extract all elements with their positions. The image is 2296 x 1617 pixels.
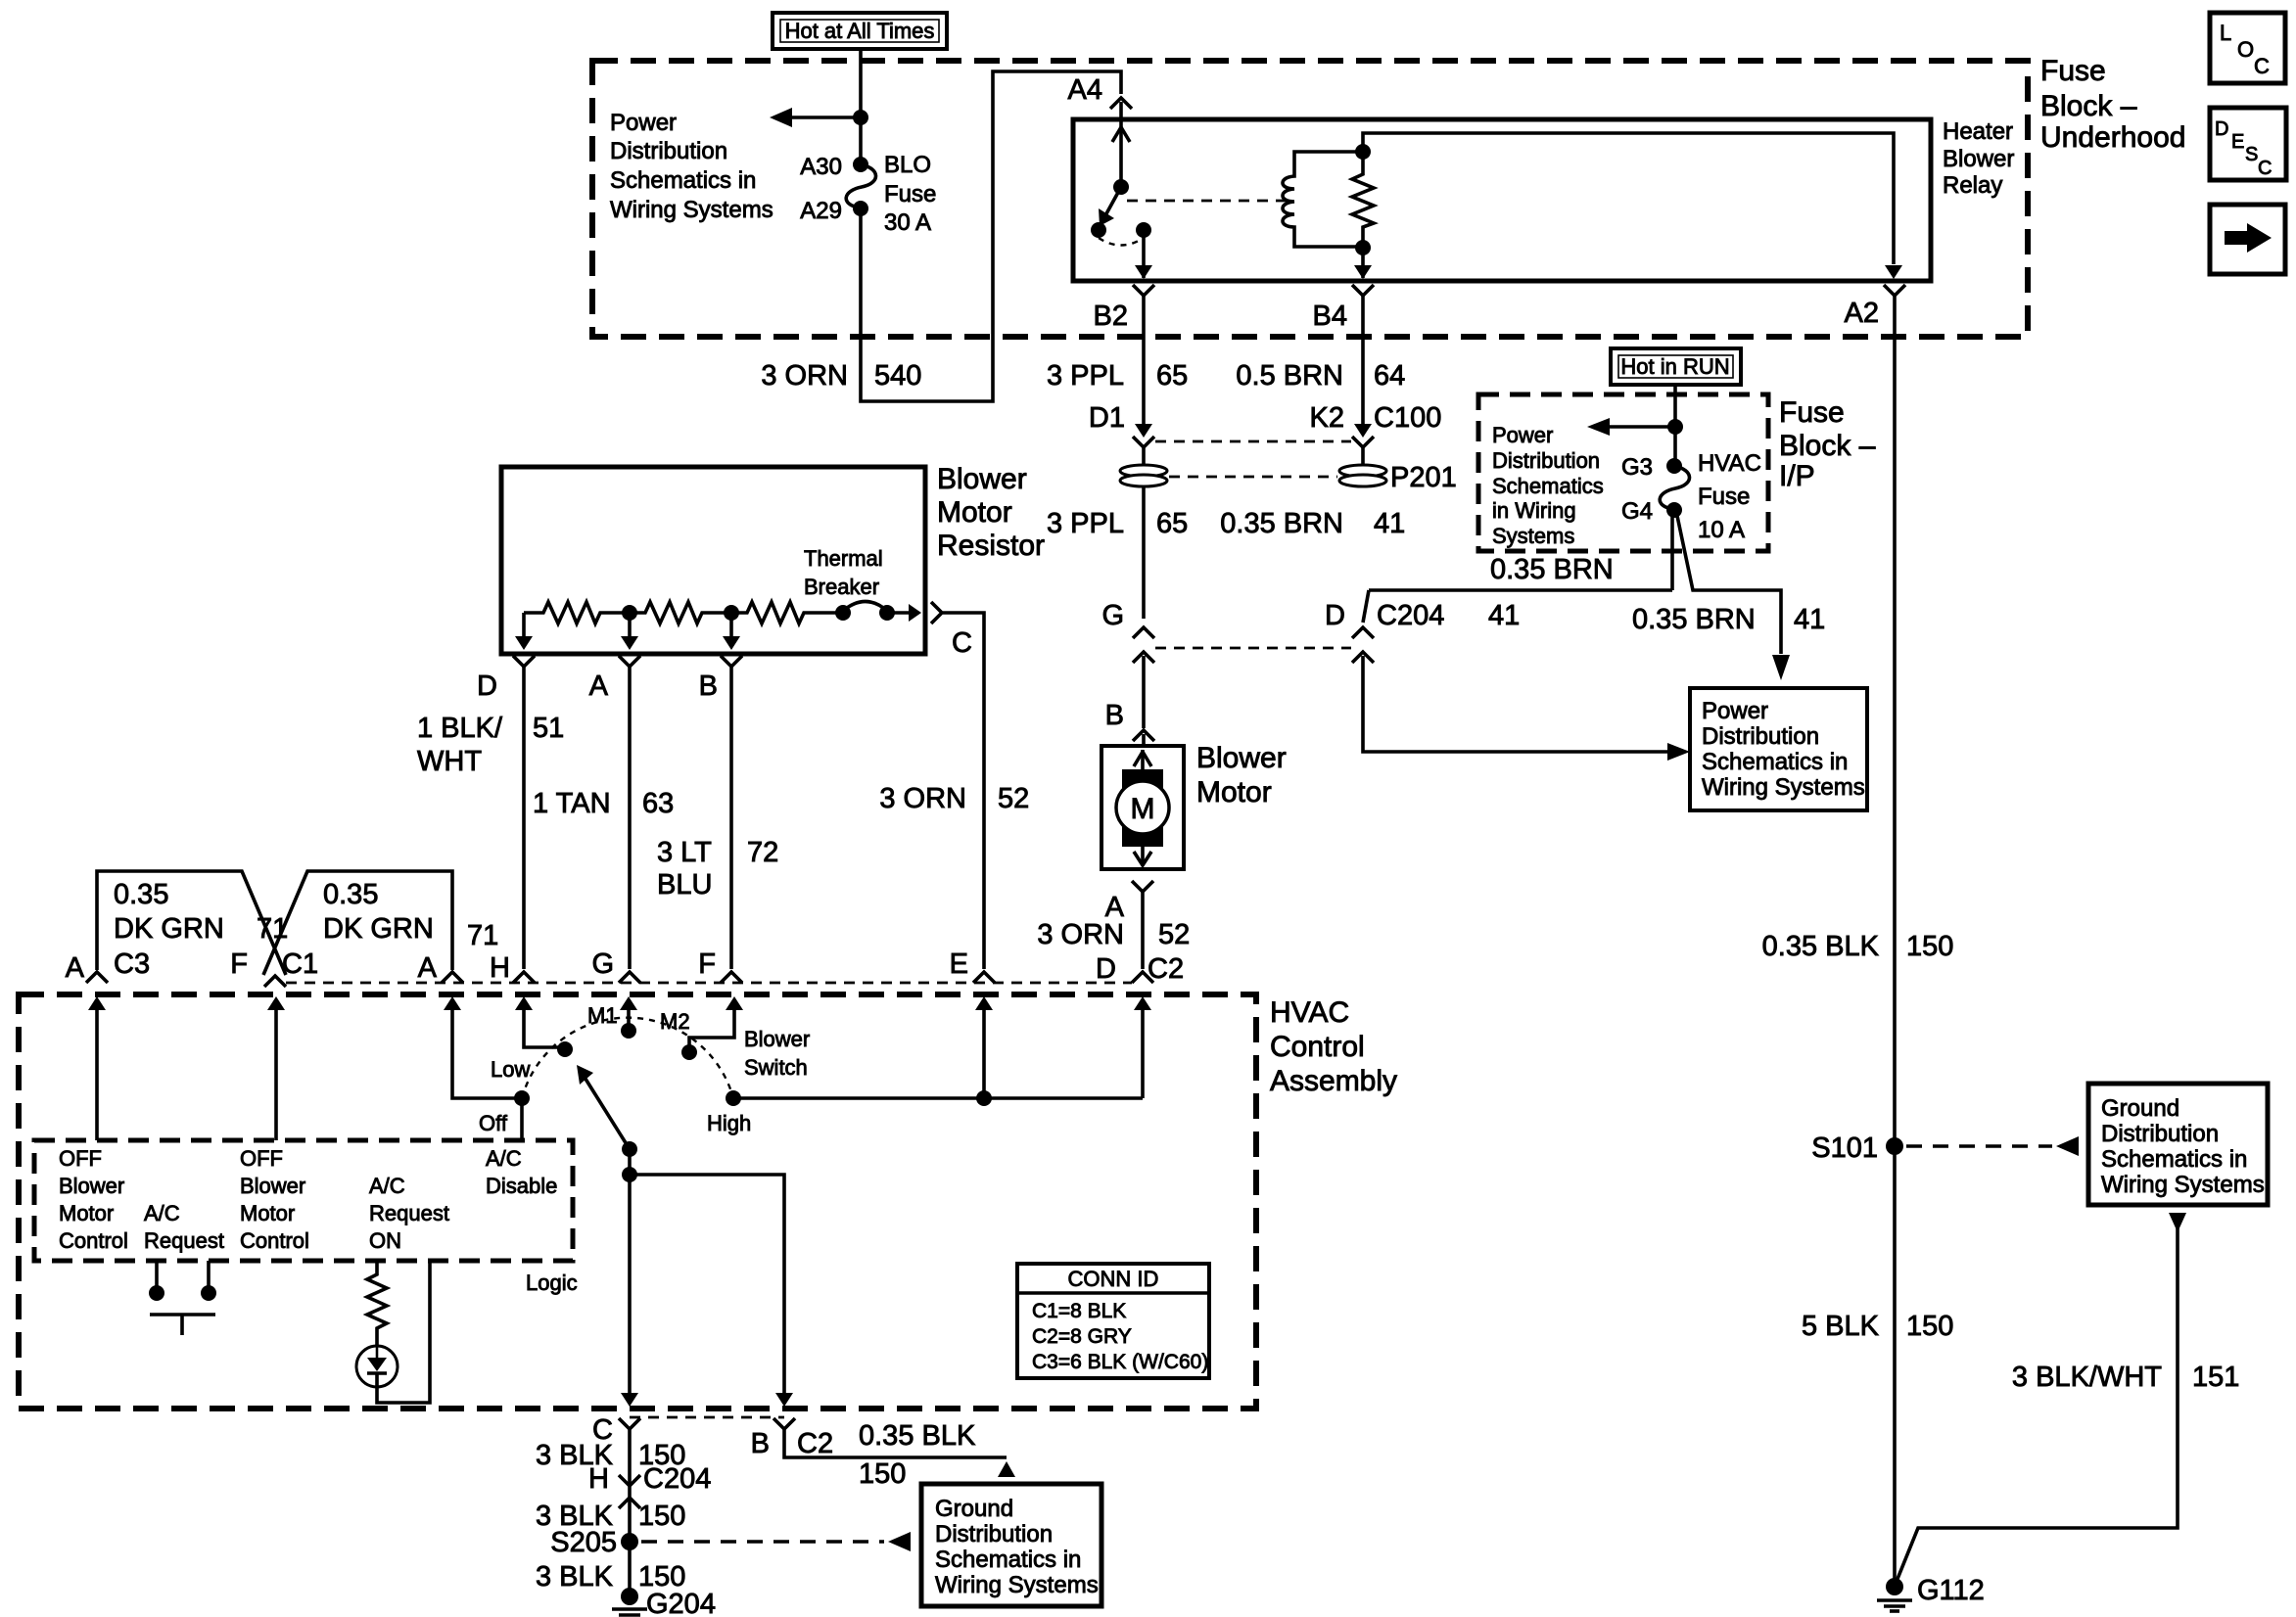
svg-text:E: E <box>950 948 968 980</box>
svg-text:65: 65 <box>1156 360 1188 392</box>
svg-text:65: 65 <box>1156 508 1188 539</box>
svg-text:3 BLK/WHT: 3 BLK/WHT <box>2012 1362 2162 1393</box>
svg-text:G204: G204 <box>646 1589 716 1617</box>
resistor element 2 <box>630 602 731 624</box>
svg-text:Motor: Motor <box>937 496 1012 529</box>
label 3 BLK 150 (below S205) <box>536 1548 685 1593</box>
blower motor pin A wire to HVAC D <box>1037 881 1190 985</box>
switch wiper arm <box>577 1065 637 1157</box>
ground distribution box (right) <box>2088 1084 2268 1205</box>
svg-text:H: H <box>490 952 510 984</box>
wire resistor C to HVAC E <box>943 613 984 969</box>
HVAC pin G to M1 contact <box>587 996 637 1039</box>
wire A2 to S101 to G112 <box>1893 296 1897 1586</box>
svg-text:CONN ID: CONN ID <box>1068 1267 1159 1291</box>
wire relay contact to B2 <box>1135 237 1152 279</box>
svg-text:G4: G4 <box>1621 498 1653 525</box>
svg-text:C1=8 BLK: C1=8 BLK <box>1032 1300 1126 1322</box>
relay contact dashed arc <box>1099 238 1144 246</box>
label 3 BLK 150 (below C204 H) <box>536 1501 685 1532</box>
label 3 BLK 150 (above C204 H) <box>536 1440 685 1471</box>
blower motor <box>1101 746 1184 869</box>
A/C request ON LED <box>356 1261 430 1403</box>
svg-text:63: 63 <box>642 788 674 819</box>
svg-text:C204: C204 <box>643 1463 711 1495</box>
ground distribution box (bottom middle) <box>921 1484 1101 1606</box>
svg-text:B: B <box>1105 700 1124 731</box>
blower switch rotary arc <box>522 1018 733 1098</box>
connector B2 chevron <box>1133 285 1154 296</box>
A/C request ON resistor <box>367 1261 387 1346</box>
splice S101 <box>1811 1132 1903 1164</box>
svg-text:G112: G112 <box>1917 1575 1985 1606</box>
label 1 TAN 63 <box>533 788 674 819</box>
svg-text:150: 150 <box>1906 1311 1953 1342</box>
svg-text:D: D <box>477 670 497 702</box>
ground G204 <box>612 1588 716 1617</box>
wire arrow to power distribution <box>770 108 868 127</box>
svg-text:ON: ON <box>369 1228 401 1253</box>
label box Hot at All Times <box>773 13 947 49</box>
HVAC pin A (C3) arrow into box <box>88 996 106 1140</box>
loc legend box <box>2210 13 2285 83</box>
dashed connector line C204 <box>1155 647 1351 650</box>
svg-text:OFF: OFF <box>59 1146 102 1171</box>
HVAC pin A to Off contact <box>444 996 516 1098</box>
label 3 BLK/WHT 151 <box>2012 1362 2239 1393</box>
svg-text:Wiring Systems: Wiring Systems <box>2101 1172 2265 1198</box>
fuse block I/P dashed box <box>1478 394 1768 551</box>
svg-text:O: O <box>2237 37 2254 62</box>
svg-text:0.5 BRN: 0.5 BRN <box>1236 360 1343 392</box>
dashed line between grommets <box>1169 476 1337 479</box>
svg-text:Schematics in: Schematics in <box>935 1547 1081 1573</box>
svg-text:WHT: WHT <box>417 746 482 777</box>
grommet P201 right <box>1339 447 1457 493</box>
thermal breaker <box>835 602 895 622</box>
wire B2 to connector C100 D1 <box>1142 296 1146 427</box>
thermal breaker label <box>804 546 883 599</box>
svg-text:71: 71 <box>257 913 288 945</box>
fuse BLO 30A <box>800 152 936 236</box>
svg-text:G: G <box>591 948 614 980</box>
svg-text:0.35 BLK: 0.35 BLK <box>1762 931 1880 962</box>
svg-text:A/C: A/C <box>369 1174 405 1198</box>
svg-text:A: A <box>418 952 438 984</box>
svg-text:71: 71 <box>467 920 498 951</box>
svg-text:Hot at All Times: Hot at All Times <box>785 19 935 43</box>
relay switch common with up arrow <box>1112 121 1130 195</box>
resistor terminal B <box>699 620 742 969</box>
svg-text:I/P: I/P <box>1779 460 1815 492</box>
svg-text:Schematics in: Schematics in <box>2101 1146 2247 1173</box>
connector C chevron (bottom) <box>592 1414 640 1535</box>
svg-text:K2: K2 <box>1310 402 1344 434</box>
blower motor label <box>1196 742 1287 808</box>
svg-text:Motor: Motor <box>59 1201 114 1225</box>
svg-text:0.35 BRN: 0.35 BRN <box>1632 604 1756 635</box>
svg-text:F: F <box>230 948 248 980</box>
svg-text:Hot in RUN: Hot in RUN <box>1620 354 1729 379</box>
svg-text:Blower: Blower <box>937 463 1027 495</box>
svg-text:Schematics in: Schematics in <box>1702 749 1848 775</box>
svg-text:H: H <box>588 1463 609 1495</box>
relay dashed link switch to coil <box>1127 200 1288 203</box>
wire G4 slant to 41 branch <box>1677 516 1790 680</box>
text A/C request <box>144 1201 224 1253</box>
svg-text:41: 41 <box>1488 600 1520 631</box>
HVAC control assembly dashed box <box>19 994 1256 1409</box>
svg-text:52: 52 <box>998 783 1029 814</box>
label 0.35 DK GRN C3 <box>66 879 289 984</box>
connector C204 pin H <box>588 1463 711 1508</box>
svg-text:Power: Power <box>1492 423 1553 447</box>
svg-text:C1: C1 <box>282 948 318 980</box>
svg-text:Control: Control <box>59 1228 128 1253</box>
svg-text:OFF: OFF <box>240 1146 283 1171</box>
svg-text:Distribution: Distribution <box>2101 1121 2219 1147</box>
wire hot in RUN into fuse block <box>1673 385 1677 462</box>
svg-text:3 ORN: 3 ORN <box>1037 919 1124 950</box>
connector C chevron (resistor) <box>931 602 942 624</box>
svg-text:D1: D1 <box>1089 402 1125 434</box>
node A junction <box>622 605 637 621</box>
HVAC control assembly title <box>1270 996 1397 1097</box>
svg-text:Blower: Blower <box>1196 742 1287 774</box>
svg-text:Motor: Motor <box>240 1201 295 1225</box>
relay contacts <box>1091 222 1106 238</box>
svg-text:HVAC: HVAC <box>1270 996 1349 1029</box>
svg-text:C2=8 GRY: C2=8 GRY <box>1032 1325 1132 1348</box>
svg-text:S101: S101 <box>1811 1132 1878 1164</box>
dashed connector line C100 <box>1155 440 1351 443</box>
svg-text:L: L <box>2220 21 2231 45</box>
dashed reference S205 to ground distribution <box>641 1532 911 1551</box>
svg-text:Motor: Motor <box>1196 776 1272 808</box>
resistor terminal D <box>477 613 535 969</box>
svg-text:Distribution: Distribution <box>1702 723 1819 750</box>
svg-text:C100: C100 <box>1374 402 1441 434</box>
svg-text:0.35 BRN: 0.35 BRN <box>1220 508 1343 539</box>
resistor terminal A <box>589 620 640 969</box>
svg-text:M2: M2 <box>660 1009 690 1034</box>
svg-text:1 BLK/: 1 BLK/ <box>417 713 503 744</box>
svg-text:Fuse: Fuse <box>1698 484 1750 510</box>
svg-text:G3: G3 <box>1621 454 1653 481</box>
svg-text:in Wiring: in Wiring <box>1492 498 1576 523</box>
HVAC pin F to M2 contact <box>660 996 743 1060</box>
svg-text:Underhood: Underhood <box>2040 121 2185 154</box>
wire coil top to relay A2 <box>1363 133 1902 279</box>
connector C204 pin G <box>1101 600 1154 728</box>
connector C204 pin D <box>1325 590 1520 663</box>
svg-text:Wiring Systems: Wiring Systems <box>935 1572 1099 1598</box>
svg-text:D: D <box>1096 953 1116 985</box>
svg-text:Fuse: Fuse <box>1779 396 1845 429</box>
svg-text:Switch: Switch <box>744 1055 808 1080</box>
relay coil suppression resistor <box>1352 144 1374 255</box>
svg-text:C: C <box>2254 54 2270 78</box>
label 0.35 BLK 150 <box>1762 931 1954 962</box>
label 1 BLK/WHT 51 <box>417 713 564 777</box>
svg-text:Blower: Blower <box>744 1027 810 1051</box>
svg-text:B4: B4 <box>1313 300 1347 332</box>
svg-text:C: C <box>2258 158 2272 179</box>
connector B4 chevron <box>1352 285 1374 296</box>
svg-text:BLO: BLO <box>884 152 931 178</box>
svg-text:DK GRN: DK GRN <box>114 913 224 945</box>
svg-text:Low: Low <box>491 1057 530 1082</box>
fuse block underhood title <box>2040 55 2185 154</box>
wire B C2 to ground reference <box>784 1429 1015 1490</box>
connector chevrons H G F E <box>513 972 535 983</box>
wire fuse A29 to relay A4 <box>861 71 1121 401</box>
svg-text:A4: A4 <box>1068 74 1102 106</box>
logic dashed box <box>34 1140 573 1261</box>
svg-text:150: 150 <box>638 1501 685 1532</box>
svg-text:Control: Control <box>240 1228 309 1253</box>
svg-text:A/C: A/C <box>144 1201 180 1225</box>
svg-text:Disable: Disable <box>486 1174 557 1198</box>
HVAC pin D arrow <box>1134 996 1151 1098</box>
grommet P201 left <box>1120 447 1167 619</box>
svg-text:Logic: Logic <box>526 1270 578 1295</box>
splice S205 <box>550 1527 638 1558</box>
arrow legend box <box>2210 205 2285 274</box>
wire High to E and D <box>733 1090 1143 1106</box>
dashed reference S101 to ground distribution <box>1906 1136 2079 1156</box>
svg-text:3 ORN: 3 ORN <box>761 360 848 392</box>
svg-text:Resistor: Resistor <box>937 530 1045 562</box>
blower motor resistor title <box>937 463 1045 562</box>
svg-text:Control: Control <box>1270 1031 1365 1063</box>
connector C100 pin D1 <box>1089 402 1154 447</box>
relay coil <box>1283 152 1363 247</box>
text OFF blower motor control (2) <box>240 1146 309 1253</box>
ground G112 <box>1877 1575 1985 1611</box>
goalpost wire C3-A to C1-F <box>86 871 286 983</box>
svg-text:C2: C2 <box>797 1428 833 1459</box>
svg-text:3 BLK: 3 BLK <box>536 1561 614 1593</box>
svg-text:5 BLK: 5 BLK <box>1802 1311 1880 1342</box>
svg-text:Assembly: Assembly <box>1270 1065 1397 1097</box>
svg-text:High: High <box>707 1111 751 1135</box>
switch contact dots <box>514 1090 530 1106</box>
svg-text:150: 150 <box>859 1458 906 1490</box>
wire to resistor C output <box>887 604 921 622</box>
svg-text:Wiring Systems: Wiring Systems <box>1702 774 1865 801</box>
svg-text:150: 150 <box>1906 931 1953 962</box>
svg-text:C3=6 BLK (W/C60): C3=6 BLK (W/C60) <box>1032 1351 1208 1373</box>
svg-text:DK GRN: DK GRN <box>323 913 434 945</box>
svg-text:Request: Request <box>369 1201 449 1225</box>
dashed connector line C1/C2 (top of HVAC) <box>286 982 1132 985</box>
svg-text:B2: B2 <box>1094 300 1128 332</box>
svg-text:3 PPL: 3 PPL <box>1047 360 1124 392</box>
svg-text:D: D <box>2215 118 2228 140</box>
label 5 BLK 150 <box>1802 1311 1953 1342</box>
svg-text:Thermal: Thermal <box>804 546 883 571</box>
wire C204 D down to power distribution box <box>1363 656 1690 761</box>
svg-text:Blower: Blower <box>59 1174 124 1198</box>
connector A4 chevron <box>1110 98 1132 109</box>
text A/C disable <box>486 1146 557 1198</box>
goalpost wire C1 to HVAC A <box>263 871 463 987</box>
svg-text:1 TAN: 1 TAN <box>533 788 611 819</box>
svg-text:A: A <box>589 670 609 702</box>
svg-text:A: A <box>66 952 85 984</box>
svg-text:Distribution: Distribution <box>610 138 727 164</box>
svg-text:Power: Power <box>610 110 677 136</box>
svg-text:Distribution: Distribution <box>1492 448 1600 473</box>
wire G4 down to C204 wire <box>1670 512 1674 590</box>
svg-text:A30: A30 <box>800 154 842 180</box>
dashed connector line C2 bottom <box>630 1416 784 1419</box>
HVAC pin F (C1) arrow into box <box>267 996 285 1140</box>
svg-text:Block –: Block – <box>1779 430 1876 462</box>
connector C100 pin K2 <box>1310 296 1442 447</box>
svg-text:3 ORN: 3 ORN <box>879 783 966 814</box>
svg-text:A2: A2 <box>1845 298 1879 329</box>
blower motor pin B <box>1105 700 1154 746</box>
svg-text:Blower: Blower <box>1943 146 2014 172</box>
fuse block I/P title <box>1779 396 1876 492</box>
fuse block underhood dashed box <box>592 61 2028 337</box>
connector A2 chevron <box>1884 285 1905 296</box>
svg-text:B: B <box>699 670 718 702</box>
svg-text:41: 41 <box>1794 604 1825 635</box>
svg-text:0.35: 0.35 <box>114 879 168 910</box>
wire coil bottom to B4 <box>1354 248 1372 279</box>
svg-text:Ground: Ground <box>935 1496 1013 1522</box>
resistor element 3 <box>731 602 843 624</box>
wire 151 from ground distribution to G112 <box>1898 1213 2186 1579</box>
wire Off contact to logic box <box>520 1098 524 1140</box>
HVAC pin H to Low contact <box>515 996 559 1047</box>
svg-text:10 A: 10 A <box>1698 517 1745 543</box>
svg-text:Breaker: Breaker <box>804 575 879 599</box>
resistor element 1 <box>524 602 630 624</box>
svg-text:Heater: Heater <box>1943 118 2013 145</box>
svg-text:C: C <box>952 627 972 659</box>
arrow to power distribution (I/P) <box>1587 418 1683 436</box>
svg-text:0.35 BLK: 0.35 BLK <box>859 1420 976 1452</box>
blower motor resistor box <box>501 467 925 654</box>
node B junction <box>724 605 739 621</box>
svg-text:Power: Power <box>1702 698 1768 724</box>
svg-text:Request: Request <box>144 1228 224 1253</box>
fuse HVAC 10A <box>1621 450 1761 543</box>
heater blower relay box <box>1073 119 1931 281</box>
svg-text:G: G <box>1101 600 1124 631</box>
power distribution box (right) <box>1690 688 1867 810</box>
wire wiper to C output and B branch <box>622 1149 784 1395</box>
wire hot at all times down to fuse <box>859 49 863 162</box>
hot in RUN label box <box>1611 348 1741 385</box>
HVAC pin B arrow out of box <box>775 1393 793 1407</box>
svg-text:P201: P201 <box>1390 462 1457 493</box>
svg-text:51: 51 <box>533 713 564 744</box>
text A/C request ON <box>369 1174 449 1253</box>
svg-text:30 A: 30 A <box>884 209 931 236</box>
svg-text:Off: Off <box>479 1111 508 1135</box>
desc legend box <box>2210 108 2286 180</box>
svg-text:41: 41 <box>1374 508 1405 539</box>
svg-text:D: D <box>1325 600 1345 631</box>
svg-text:HVAC: HVAC <box>1698 450 1761 477</box>
svg-text:0.35: 0.35 <box>323 879 378 910</box>
HVAC pin E arrow <box>975 996 993 1098</box>
A/C request switch contact <box>149 1261 216 1335</box>
svg-text:C204: C204 <box>1377 600 1444 631</box>
svg-text:B: B <box>751 1428 770 1459</box>
text power distribution reference (underhood) <box>610 110 773 223</box>
HVAC pin C arrow out of box <box>621 1393 638 1407</box>
svg-text:BLU: BLU <box>657 869 712 901</box>
svg-text:Blower: Blower <box>240 1174 305 1198</box>
relay label Heater Blower Relay <box>1943 118 2014 199</box>
svg-text:Schematics: Schematics <box>1492 474 1604 498</box>
conn id table <box>1017 1264 1209 1378</box>
svg-text:C3: C3 <box>114 948 150 980</box>
svg-text:52: 52 <box>1158 919 1190 950</box>
svg-text:151: 151 <box>2192 1362 2239 1393</box>
svg-text:64: 64 <box>1374 360 1405 392</box>
label 3 ORN 52 (resistor C wire) <box>879 783 1029 814</box>
svg-text:Fuse: Fuse <box>2040 55 2106 87</box>
wire C204 D to G4 fuse <box>1369 588 1672 592</box>
svg-text:A/C: A/C <box>486 1146 522 1171</box>
svg-text:3 PPL: 3 PPL <box>1047 508 1124 539</box>
svg-text:Ground: Ground <box>2101 1095 2179 1122</box>
svg-text:Relay: Relay <box>1943 172 2002 199</box>
relay wiper arm <box>1099 187 1121 226</box>
text power distribution reference (I/P) <box>1492 423 1604 548</box>
label 3 LT BLU 72 <box>657 837 778 901</box>
svg-text:0.35 BRN: 0.35 BRN <box>1490 554 1614 585</box>
svg-text:72: 72 <box>747 837 778 868</box>
text OFF blower motor control (1) <box>59 1146 128 1253</box>
svg-text:Block –: Block – <box>2040 90 2137 122</box>
svg-text:S205: S205 <box>550 1527 617 1558</box>
svg-text:Systems: Systems <box>1492 524 1574 548</box>
svg-text:S: S <box>2245 144 2258 165</box>
svg-text:Schematics in: Schematics in <box>610 167 756 194</box>
svg-text:3 LT: 3 LT <box>657 837 712 868</box>
svg-text:E: E <box>2231 131 2244 153</box>
svg-text:Distribution: Distribution <box>935 1521 1053 1548</box>
svg-text:M: M <box>1131 793 1155 825</box>
svg-text:F: F <box>698 948 716 980</box>
connector C2 pin B (bottom) <box>751 1418 976 1459</box>
svg-text:A29: A29 <box>800 198 842 224</box>
svg-text:Wiring Systems: Wiring Systems <box>610 197 773 223</box>
svg-text:540: 540 <box>874 360 921 392</box>
svg-text:Fuse: Fuse <box>884 181 936 208</box>
label F C1 0.35 DK GRN <box>230 879 510 984</box>
